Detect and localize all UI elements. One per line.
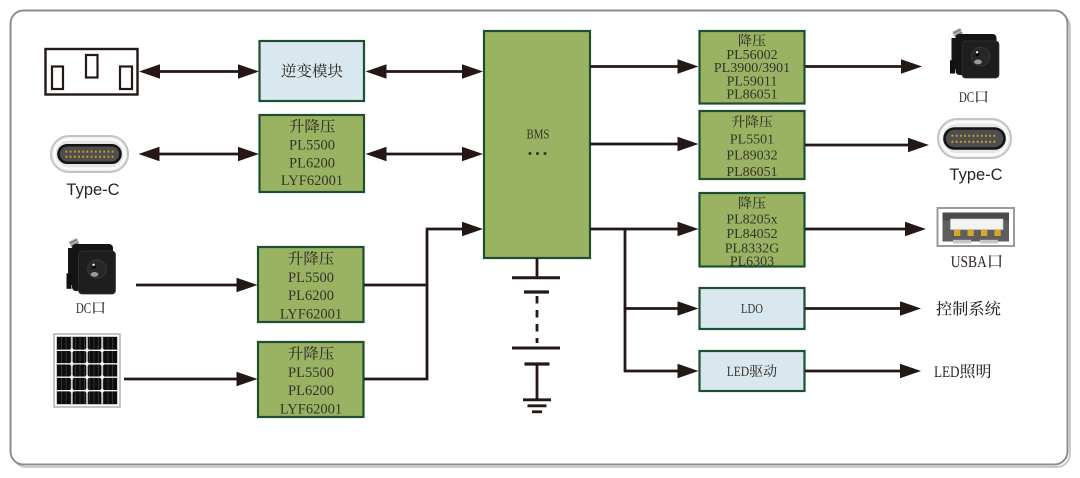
buck box R1 — [700, 31, 805, 104]
wire: BMS -> R3 — [590, 222, 699, 236]
AC outlet icon — [46, 49, 138, 95]
battery cell N plus plate — [512, 347, 560, 350]
wire: LED driver -> LED lighting — [805, 364, 921, 378]
svg-text:PL8205x: PL8205x — [726, 212, 777, 227]
DC jack icon (right) — [950, 28, 999, 78]
svg-text:PL6303: PL6303 — [730, 255, 774, 270]
LDO box — [700, 288, 805, 329]
R3 title — [739, 196, 765, 209]
svg-text:PL6200: PL6200 — [289, 156, 335, 172]
LED lighting label — [934, 364, 990, 379]
svg-text:PL86051: PL86051 — [726, 88, 777, 103]
svg-text:PL6200: PL6200 — [288, 288, 334, 304]
DC port label (left) — [76, 302, 104, 314]
BMS box — [484, 31, 590, 258]
DC jack icon (left) — [67, 238, 116, 294]
svg-text:LYF62001: LYF62001 — [281, 173, 343, 189]
wire: AC outlet <-> inverter — [139, 64, 259, 78]
wire: Type-C <-> buck-boost B2 — [139, 147, 260, 161]
svg-text:LYF62001: LYF62001 — [280, 307, 342, 323]
svg-text:PL89032: PL89032 — [726, 149, 777, 164]
svg-text:LDO: LDO — [741, 301, 763, 316]
wire: R2 -> Type-C — [805, 138, 929, 152]
inverter module text — [281, 63, 342, 77]
wire: LDO -> control system — [805, 301, 921, 315]
buck-boost box B4 — [258, 342, 364, 417]
DC port label (right) — [959, 91, 987, 103]
LED driver box — [700, 351, 805, 391]
R1 title — [739, 34, 765, 47]
wire: solar -> B4 — [124, 372, 258, 386]
wire: drop to LDO/LED — [624, 229, 627, 371]
buck box R3 — [700, 193, 805, 267]
wire BMS to battery — [536, 258, 539, 277]
svg-text:BMS: BMS — [527, 127, 550, 142]
buck-boost box B2 — [260, 115, 365, 192]
B3 title — [288, 251, 333, 265]
svg-text:PL5500: PL5500 — [288, 270, 334, 286]
svg-text:PL6200: PL6200 — [288, 383, 334, 399]
wire: junction -> BMS — [426, 222, 483, 236]
Type-C icon (left) — [51, 136, 128, 172]
wire: B3 output — [364, 284, 427, 287]
svg-text:PL5501: PL5501 — [730, 132, 774, 147]
B2 title — [289, 119, 334, 133]
svg-text:PL84052: PL84052 — [726, 227, 777, 242]
svg-text:LYF62001: LYF62001 — [280, 402, 342, 418]
wire: B2 <-> BMS — [366, 147, 484, 161]
wire: R1 -> DC port — [805, 59, 922, 73]
buck-boost box R2 — [700, 111, 805, 179]
wire: BMS -> R1 — [590, 59, 699, 73]
solar panel icon — [54, 334, 120, 407]
dashed wire (more cells) — [536, 296, 539, 343]
wire: R3 -> USB-A — [805, 222, 926, 236]
wire: inverter <-> BMS — [366, 64, 484, 78]
wire battery to ground — [536, 364, 539, 399]
buck-boost box B3 — [258, 247, 364, 322]
svg-text:PL5500: PL5500 — [289, 138, 335, 154]
control system label — [936, 301, 1000, 316]
wire: DC jack -> B3 — [136, 278, 258, 292]
wire: B4 output to junction — [364, 230, 427, 379]
wire: BMS -> R2 — [590, 137, 699, 151]
R2 title — [732, 115, 772, 128]
USBA port label — [951, 255, 1002, 268]
svg-text:PL86051: PL86051 — [726, 165, 777, 180]
wire: -> LED driver — [624, 364, 699, 378]
USB-A icon — [938, 208, 1015, 246]
B4 title — [288, 346, 333, 360]
battery cell N minus plate — [525, 362, 550, 365]
inverter module box — [260, 41, 365, 101]
ground — [523, 398, 551, 401]
svg-text:Type-C: Type-C — [66, 181, 119, 199]
wire: -> LDO — [624, 301, 699, 315]
BMS dots — [529, 152, 532, 155]
Type-C icon (right) — [938, 119, 1011, 158]
battery cell 1 minus plate — [524, 290, 549, 293]
LED driver text — [727, 364, 777, 377]
svg-text:Type-C: Type-C — [949, 166, 1002, 184]
svg-text:PL5500: PL5500 — [288, 365, 334, 381]
battery cell 1 plus plate — [512, 276, 560, 279]
